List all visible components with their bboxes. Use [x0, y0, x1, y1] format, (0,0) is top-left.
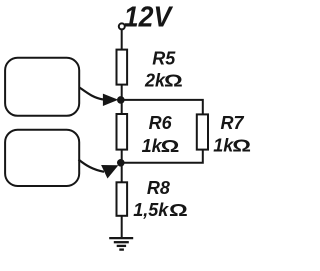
svg-text:R8: R8	[147, 178, 170, 198]
wire terminal to R5	[121, 30, 123, 50]
resistor R5	[117, 50, 128, 85]
wire R8 to ground	[121, 216, 123, 238]
terminal circle +12V	[119, 23, 125, 29]
value 1,5kΩ	[133, 200, 188, 220]
node B junction dot	[117, 159, 125, 167]
svg-text:Ω: Ω	[164, 71, 183, 91]
svg-text:Ω: Ω	[169, 200, 188, 220]
arrow callout 2 to node B	[79, 160, 119, 179]
wire R6 to node B	[121, 150, 123, 163]
svg-text:R5: R5	[152, 48, 176, 68]
value 1kΩ left	[142, 136, 180, 156]
ground symbol	[109, 238, 133, 250]
wire R7 bottom to node B	[121, 150, 203, 163]
svg-text:R6: R6	[149, 113, 173, 133]
wire R5 to node A	[121, 85, 123, 100]
wire node A to R6	[121, 100, 123, 114]
callout box 1	[5, 58, 79, 116]
svg-text:Ω: Ω	[232, 136, 251, 156]
value 1kΩ right	[213, 136, 251, 156]
arrow callout 1 to node A	[80, 88, 119, 107]
svg-text:1,5k: 1,5k	[133, 200, 169, 220]
wire node B to R8	[121, 163, 123, 183]
resistor R8	[117, 182, 128, 216]
svg-text:2k: 2k	[144, 71, 166, 91]
node A junction dot	[117, 96, 125, 104]
svg-text:1k: 1k	[142, 136, 163, 156]
svg-text:Ω: Ω	[161, 136, 180, 156]
svg-text:1k: 1k	[213, 136, 234, 156]
svg-text:R7: R7	[221, 113, 245, 133]
resistor R6	[117, 114, 128, 150]
wire node A to R7 branch	[121, 100, 203, 115]
resistor R7	[197, 114, 208, 149]
svg-text:12V: 12V	[124, 1, 174, 33]
value 2kΩ	[144, 71, 183, 91]
callout box 2	[5, 130, 79, 186]
